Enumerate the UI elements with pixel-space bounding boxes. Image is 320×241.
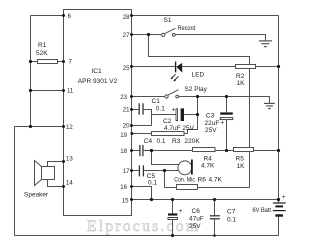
svg-text:21: 21 — [123, 106, 130, 113]
svg-text:15: 15 — [122, 198, 129, 205]
svg-text:4.7K: 4.7K — [201, 163, 215, 170]
junction dot row18 C3 bottom — [225, 149, 228, 152]
svg-text:R1: R1 — [38, 42, 47, 49]
svg-text:23: 23 — [120, 94, 127, 101]
capacitor C1 — [139, 103, 143, 114]
resistor R5 — [234, 148, 254, 152]
svg-text:+: + — [282, 194, 286, 201]
svg-text:IC1: IC1 — [91, 68, 102, 75]
svg-text:Record: Record — [178, 25, 196, 32]
junction dot pin16 joins pin15 row — [150, 198, 153, 201]
svg-text:13: 13 — [66, 156, 73, 163]
junction dot C2 right — [196, 113, 199, 116]
junction dot pin20 at IC — [130, 124, 133, 127]
switch S1 — [162, 28, 176, 36]
svg-text:+: + — [179, 208, 183, 215]
svg-text:Speaker: Speaker — [24, 192, 49, 199]
junction dot R1 left — [29, 60, 32, 63]
svg-text:0.1: 0.1 — [227, 217, 236, 224]
LED D1 — [171, 62, 183, 82]
junction dot pin7 at IC — [62, 60, 65, 63]
junction dot pin6 at IC — [62, 14, 65, 17]
junction dot R2 right rail — [277, 65, 280, 68]
wire pin16 jog down — [132, 187, 152, 200]
svg-text:4.7uF 25V: 4.7uF 25V — [164, 125, 195, 132]
svg-text:R5: R5 — [236, 156, 245, 163]
resistor R2 — [236, 65, 256, 69]
resistor R4 — [193, 148, 216, 152]
wire pin28 top row — [132, 15, 279, 17]
battery BT1 6V — [273, 203, 286, 217]
junction dot row18 mic branch — [150, 149, 153, 152]
wire pin21 to C1 — [132, 109, 139, 111]
wire branch row18 to mic top — [152, 151, 179, 165]
wire pin25 to LED — [132, 66, 176, 68]
svg-text:28: 28 — [123, 14, 130, 21]
svg-text:27: 27 — [123, 32, 130, 39]
svg-text:16: 16 — [120, 184, 127, 191]
wire branch pin17 down to R6 row — [165, 171, 250, 188]
svg-text:C4: C4 — [144, 138, 153, 145]
resistor R3 — [152, 132, 185, 136]
svg-text:R6: R6 — [198, 177, 207, 184]
wire pin23 to S2 — [132, 96, 165, 98]
svg-text:220K: 220K — [185, 138, 201, 145]
wire pin19 to R3 — [132, 133, 153, 135]
svg-text:R3: R3 — [172, 138, 181, 145]
wire bottom rail — [15, 235, 279, 237]
wire R2 to right rail — [256, 66, 279, 68]
ground for S1 — [259, 41, 272, 47]
svg-text:25: 25 — [123, 65, 130, 72]
svg-text:47uF: 47uF — [189, 216, 204, 223]
svg-text:0.1: 0.1 — [148, 180, 157, 187]
wire left bus vertical (node A) — [30, 16, 32, 127]
wire C2 net vertical — [188, 97, 198, 134]
svg-text:C6: C6 — [192, 208, 201, 215]
junction dot pin27 at IC — [130, 33, 133, 36]
microphone MIC1 — [178, 160, 192, 175]
junction dot C6 top — [171, 198, 174, 201]
svg-text:LED: LED — [192, 72, 205, 79]
resistor R6 — [177, 185, 198, 190]
svg-text:1K: 1K — [237, 80, 246, 87]
resistor R1 — [38, 60, 58, 64]
junction dot pin11 left — [29, 89, 32, 92]
svg-text:0.1: 0.1 — [156, 106, 165, 113]
junction dot pin11 at IC — [62, 89, 65, 92]
svg-text:6V Batt: 6V Batt — [253, 207, 272, 214]
svg-text:18: 18 — [120, 148, 127, 155]
svg-text:25V: 25V — [189, 223, 201, 230]
junction dot pin19 at IC — [130, 132, 133, 135]
svg-text:12: 12 — [66, 124, 73, 131]
svg-text:S2 Play: S2 Play — [185, 86, 208, 93]
junction dot pin27 branch — [147, 33, 150, 36]
wire pin12 row — [15, 126, 64, 128]
svg-text:+: + — [221, 120, 225, 127]
svg-text:+: + — [172, 107, 176, 114]
junction dot pin13 at IC — [62, 160, 65, 163]
wire S1 to ground — [175, 35, 265, 41]
junction dot battery top — [277, 198, 280, 201]
junction dot pin18 at IC — [130, 149, 133, 152]
wire R3 right lead — [184, 133, 188, 135]
wire pin15 row — [132, 199, 279, 201]
svg-text:S1: S1 — [164, 17, 172, 24]
wire pin17 to C5 — [132, 170, 140, 172]
wire C5 to mic bottom lead — [144, 170, 180, 172]
svg-text:17: 17 — [123, 168, 130, 175]
capacitor C5 — [139, 165, 143, 176]
svg-text:Con. Mic: Con. Mic — [174, 177, 195, 184]
capacitor C6 — [168, 200, 183, 236]
svg-text:C1: C1 — [152, 98, 161, 105]
junction dot pin14 at IC — [62, 185, 65, 188]
junction dot pin28 at IC — [130, 14, 133, 17]
wire row18 main — [143, 150, 278, 152]
capacitor C3 — [220, 97, 233, 151]
wire outer right rail lower — [278, 217, 280, 236]
junction dot pin16 at IC — [130, 185, 133, 188]
wire C2 row — [152, 114, 177, 116]
switch S2 — [165, 90, 179, 98]
IC U1 box — [64, 10, 132, 216]
wire pin27 to S1 — [132, 34, 162, 36]
speaker SP1 — [35, 161, 55, 186]
svg-text:19: 19 — [120, 132, 127, 139]
wire pin13 to speaker — [48, 162, 64, 167]
junction dot C7 bottom rail — [213, 234, 216, 237]
junction dot pin25 at IC — [130, 65, 133, 68]
junction dot row18 right rail — [277, 149, 280, 152]
wire pin7 row — [31, 61, 64, 63]
wire S2 to ground — [179, 97, 270, 103]
svg-text:C2: C2 — [163, 118, 172, 125]
junction dot pin17 at IC — [130, 169, 133, 172]
svg-text:0.1: 0.1 — [157, 138, 166, 145]
svg-text:C7: C7 — [227, 209, 236, 216]
wire LED to R2 — [182, 66, 235, 68]
svg-text:11: 11 — [67, 88, 74, 95]
junction dot C6 bottom rail — [171, 234, 174, 237]
svg-text:4.7K: 4.7K — [209, 177, 223, 184]
junction dot S2 wire C3 top — [225, 95, 228, 98]
junction dot pin12 left — [29, 125, 32, 128]
svg-text:R2: R2 — [236, 73, 245, 80]
svg-text:1K: 1K — [237, 163, 246, 170]
wire pin11 row — [31, 90, 64, 92]
svg-text:14: 14 — [66, 180, 73, 187]
svg-text:C3: C3 — [206, 113, 215, 120]
junction dot pin21 at IC — [130, 108, 133, 111]
wire outer left rail — [14, 127, 16, 236]
wire outer right rail upper — [278, 16, 280, 203]
svg-text:22uF: 22uF — [205, 120, 220, 127]
junction dot C7 top — [213, 198, 216, 201]
junction dot pin15 at IC — [130, 198, 133, 201]
wire pin20 row — [132, 125, 152, 127]
junction dot pin12 at IC — [62, 125, 65, 128]
ground for S2 — [264, 103, 275, 108]
svg-text:52K: 52K — [36, 50, 48, 57]
junction dot pin23 at IC — [130, 95, 133, 98]
wire C1 to corner — [143, 110, 151, 126]
svg-text:R4: R4 — [204, 156, 213, 163]
wire pin6 horizontal — [31, 15, 64, 17]
svg-text:APR 9301 V2: APR 9301 V2 — [78, 78, 118, 85]
junction dot pin17 branch — [163, 169, 166, 172]
svg-text:25V: 25V — [205, 127, 217, 134]
wire pin18 to C4 — [132, 150, 140, 152]
capacitor C7 — [210, 200, 220, 236]
wire C2 to vertical — [184, 114, 198, 116]
svg-text:Elprocus.com: Elprocus.com — [87, 218, 200, 235]
junction dot S2 wire C2 net — [196, 95, 199, 98]
capacitor C2 — [172, 107, 185, 122]
capacitor C4 — [140, 145, 143, 156]
wire pin14 to speaker — [48, 180, 64, 187]
wire branch pin27 down and across — [149, 35, 250, 188]
svg-text:20: 20 — [123, 123, 130, 130]
